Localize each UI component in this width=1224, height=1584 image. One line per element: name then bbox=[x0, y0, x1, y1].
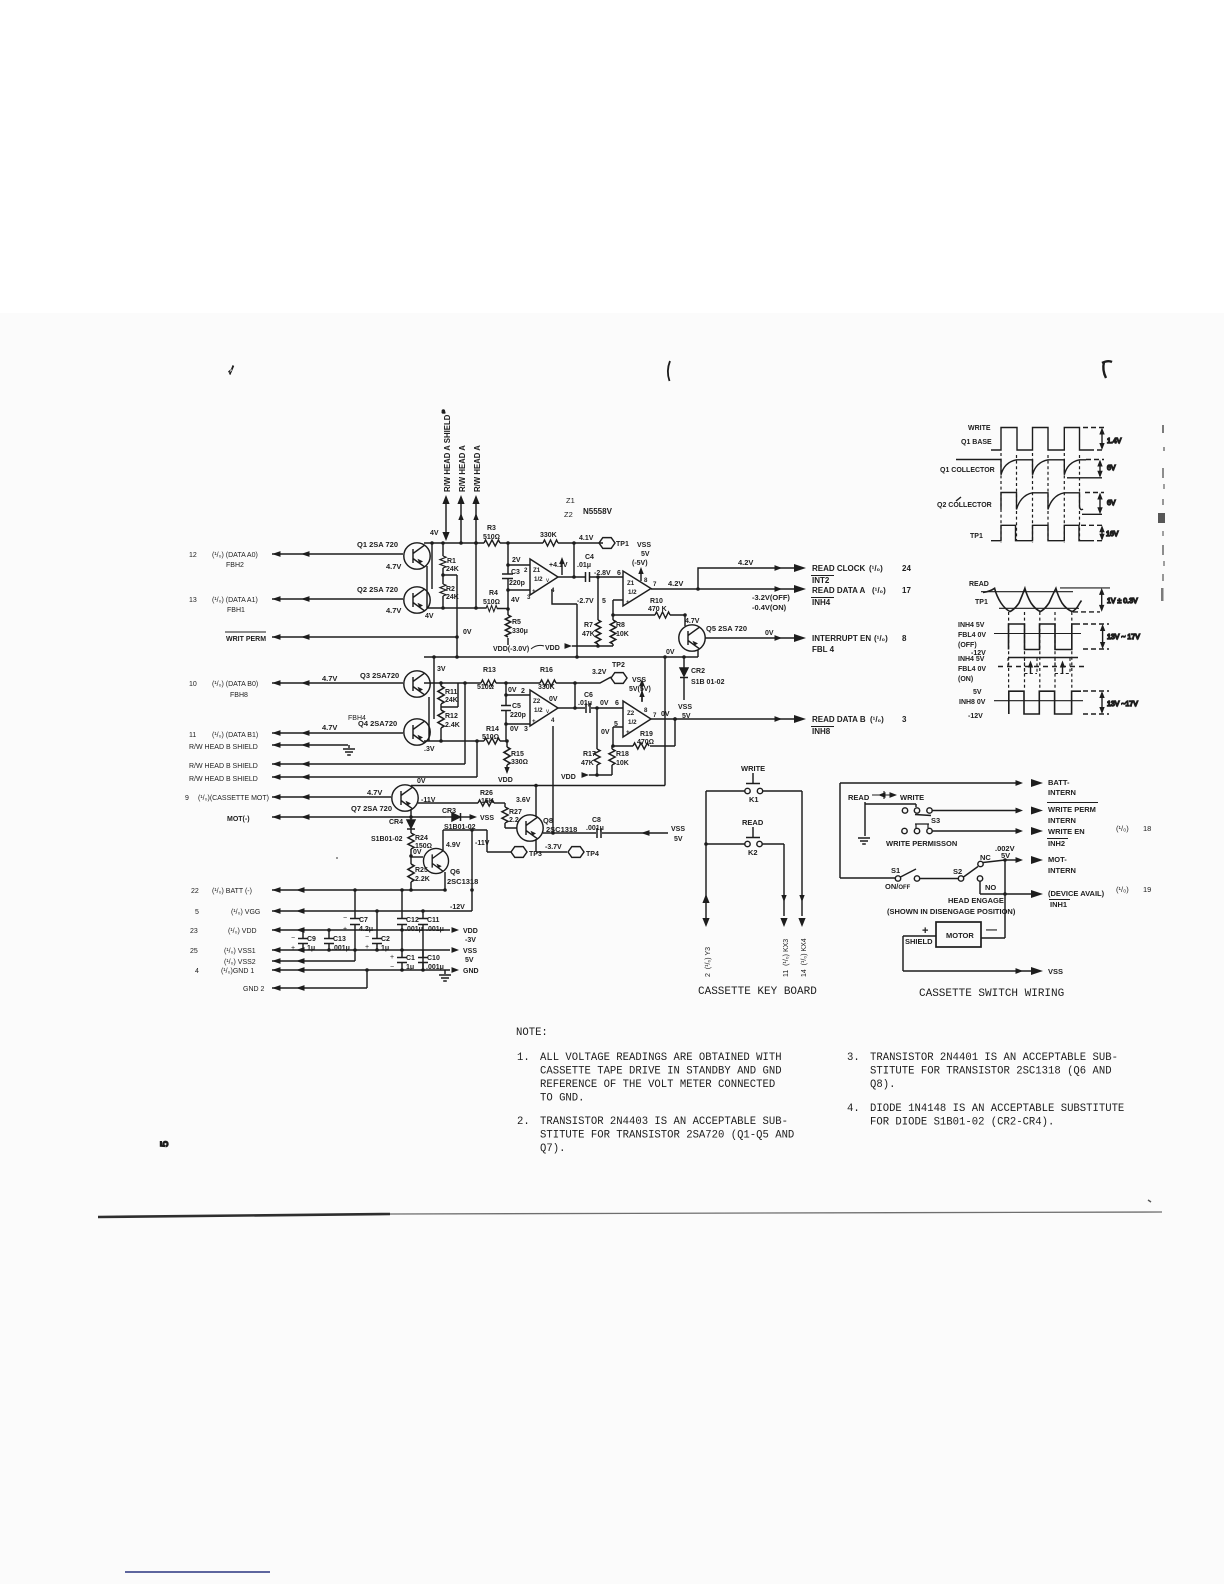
svg-text:VDD: VDD bbox=[498, 777, 513, 784]
resistor R7 bbox=[582, 620, 601, 644]
svg-text:C5: C5 bbox=[512, 703, 521, 710]
svg-text:+: + bbox=[532, 588, 536, 595]
NC contact bbox=[978, 853, 1005, 867]
svg-text:14 (¹/₀) KX4: 14 (¹/₀) KX4 bbox=[801, 938, 808, 977]
resistor R19 bbox=[633, 731, 654, 749]
svg-text:(¹/₀) VSS2: (¹/₀) VSS2 bbox=[224, 959, 256, 966]
svg-text:-12V: -12V bbox=[968, 713, 983, 720]
svg-text:DIODE 1N4148 IS AN ACCEPTABLE: DIODE 1N4148 IS AN ACCEPTABLE SUBSTITUTE bbox=[870, 1103, 1124, 1115]
svg-text:4.: 4. bbox=[847, 1103, 860, 1115]
svg-text:STITUTE FOR TRANSISTOR 2SA720: STITUTE FOR TRANSISTOR 2SA720 (Q1-Q5 AND bbox=[540, 1130, 794, 1142]
svg-text:R13: R13 bbox=[483, 667, 496, 674]
R18 chain bbox=[611, 746, 613, 775]
wire pin12 to Q1 bbox=[272, 551, 403, 557]
keyboard pin arrows bbox=[702, 894, 709, 927]
resistor R5 bbox=[505, 615, 528, 637]
svg-text:10K: 10K bbox=[616, 631, 629, 638]
svg-text:R17: R17 bbox=[583, 751, 596, 758]
INH4 OFF square wave bbox=[1009, 624, 1081, 650]
output wire Z2b READ DATA B bbox=[651, 718, 800, 720]
svg-text:R1: R1 bbox=[447, 558, 456, 565]
wire pin13 to Q2 bbox=[272, 596, 403, 602]
svg-text:Q6: Q6 bbox=[450, 867, 460, 876]
svg-text:330μ: 330μ bbox=[512, 628, 528, 635]
svg-text:R14: R14 bbox=[486, 726, 499, 733]
svg-text:3.: 3. bbox=[847, 1052, 860, 1064]
svg-text:4.7V: 4.7V bbox=[386, 562, 401, 571]
svg-text:(¹/₀) BATT (-): (¹/₀) BATT (-) bbox=[212, 888, 252, 895]
svg-text:0V: 0V bbox=[463, 629, 472, 636]
svg-text:Z1: Z1 bbox=[533, 567, 541, 574]
op-amp Z1b bbox=[623, 571, 657, 606]
INH4 ON 5V line bbox=[1008, 657, 1078, 659]
svg-text:Q4 2SA720: Q4 2SA720 bbox=[358, 719, 397, 728]
keyboard left vertical bbox=[705, 791, 707, 916]
R1 R2 midpoint tap bbox=[443, 575, 457, 657]
svg-text:13: 13 bbox=[189, 597, 197, 604]
svg-text:—: — bbox=[986, 924, 997, 936]
svg-text:R12: R12 bbox=[445, 713, 458, 720]
BATT-INTERN wire bbox=[840, 778, 1076, 797]
svg-text:.3V: .3V bbox=[424, 746, 435, 753]
svg-text:−: − bbox=[390, 964, 394, 971]
svg-text:INH1: INH1 bbox=[1050, 900, 1067, 909]
rail B 3V bbox=[424, 682, 540, 684]
svg-text:VSS: VSS bbox=[678, 704, 692, 711]
diode CR2 bbox=[680, 657, 725, 700]
transistor Q1 bbox=[404, 543, 430, 569]
svg-text:+: + bbox=[291, 945, 295, 952]
transistor Q8 bbox=[517, 815, 543, 841]
capacitor C11 bbox=[418, 911, 444, 970]
svg-text:2.: 2. bbox=[517, 1116, 530, 1128]
svg-text:+4.1V: +4.1V bbox=[549, 562, 568, 569]
svg-text:4.2V: 4.2V bbox=[668, 579, 683, 588]
svg-text:C4: C4 bbox=[585, 554, 594, 561]
op-amp Z2a input wires bbox=[506, 695, 530, 724]
svg-text:WRITE EN: WRITE EN bbox=[1048, 827, 1085, 836]
svg-text:READ DATA B: READ DATA B bbox=[812, 715, 866, 724]
wire read to S3 bbox=[865, 802, 916, 836]
resistor R8 bbox=[610, 620, 629, 644]
svg-text:24K: 24K bbox=[446, 566, 459, 573]
+4.1V arrow at op-amp output bbox=[549, 557, 568, 575]
svg-text:13V ~ 17V: 13V ~ 17V bbox=[1107, 634, 1140, 641]
svg-text:−: − bbox=[343, 915, 347, 922]
svg-text:NO: NO bbox=[985, 883, 996, 892]
svg-text:C3: C3 bbox=[511, 569, 520, 576]
svg-text:R4: R4 bbox=[489, 590, 498, 597]
svg-text:-12V: -12V bbox=[450, 904, 465, 911]
stray scan mark top-right bbox=[1102, 361, 1112, 378]
svg-text:Q8).: Q8). bbox=[870, 1079, 895, 1091]
svg-text:+: + bbox=[626, 599, 630, 606]
svg-text:1/2: 1/2 bbox=[628, 719, 637, 726]
wire R14 row bbox=[424, 740, 507, 742]
svg-text:+: + bbox=[365, 944, 369, 951]
svg-text:S2: S2 bbox=[953, 867, 962, 876]
svg-text:FBL 4: FBL 4 bbox=[812, 645, 835, 654]
4.7V wire to Q5 bbox=[685, 615, 700, 626]
svg-text:16V: 16V bbox=[1106, 531, 1119, 538]
svg-text:Q1 2SA 720: Q1 2SA 720 bbox=[357, 540, 398, 549]
svg-text:R16: R16 bbox=[540, 667, 553, 674]
capacitor C1 bbox=[390, 950, 415, 971]
svg-text:READ: READ bbox=[969, 581, 989, 588]
svg-text:READ CLOCK: READ CLOCK bbox=[812, 564, 866, 573]
S2 switch bbox=[953, 867, 978, 882]
svg-text:510Ω: 510Ω bbox=[483, 599, 500, 606]
svg-text:R/W HEAD B SHIELD: R/W HEAD B SHIELD bbox=[189, 763, 258, 770]
svg-text:K2: K2 bbox=[748, 848, 758, 857]
ground symbol GND row bbox=[439, 970, 451, 981]
capacitor C10 bbox=[418, 950, 444, 971]
svg-text:R/W HEAD B SHIELD: R/W HEAD B SHIELD bbox=[189, 776, 258, 783]
INH4 ON dashed pulse outlines bbox=[1007, 658, 1009, 666]
svg-text:4.2V: 4.2V bbox=[738, 558, 753, 567]
svg-text:STITUTE FOR TRANSISTOR 2SC1318: STITUTE FOR TRANSISTOR 2SC1318 (Q6 AND bbox=[870, 1066, 1112, 1078]
transistor Q6 bbox=[423, 848, 448, 873]
R7 chain bbox=[597, 577, 599, 646]
svg-text:-3.7V: -3.7V bbox=[545, 844, 562, 851]
svg-text:TRANSISTOR 2N4401 IS AN ACCEPT: TRANSISTOR 2N4401 IS AN ACCEPTABLE SUB- bbox=[870, 1052, 1118, 1064]
svg-text:(¹/₀) (DATA A1): (¹/₀) (DATA A1) bbox=[212, 597, 258, 604]
head A wire 2 bbox=[472, 495, 479, 545]
svg-text:19: 19 bbox=[1143, 885, 1151, 894]
svg-text:R3: R3 bbox=[487, 525, 496, 532]
resistor R15 bbox=[498, 741, 528, 784]
svg-text:R27: R27 bbox=[509, 809, 522, 816]
svg-text:17: 17 bbox=[902, 586, 911, 595]
GND2 row bbox=[243, 986, 265, 993]
capacitor C2 bbox=[365, 911, 390, 952]
svg-text:FBH8: FBH8 bbox=[230, 692, 248, 699]
junction dots top rail bbox=[430, 541, 576, 545]
ground on shield row1 bbox=[343, 745, 355, 755]
resistor R12 bbox=[438, 710, 460, 729]
svg-text:TO GND.: TO GND. bbox=[540, 1093, 585, 1105]
svg-text:a: a bbox=[442, 409, 445, 415]
R17 chain bbox=[596, 708, 598, 775]
resistor R10 bbox=[648, 598, 670, 618]
VSS 5V (-5V) supply label with arrow bbox=[632, 542, 651, 581]
op-amp Z2b bbox=[623, 701, 657, 737]
svg-text:47K: 47K bbox=[582, 631, 595, 638]
svg-text:.001μ: .001μ bbox=[426, 964, 444, 971]
svg-text:1/2: 1/2 bbox=[628, 589, 637, 596]
svg-text:13V ~17V: 13V ~17V bbox=[1107, 701, 1138, 708]
svg-text:.01μ: .01μ bbox=[578, 700, 592, 707]
R11 R12 midpoint tap bbox=[441, 683, 458, 707]
svg-text:INTERN: INTERN bbox=[1048, 866, 1076, 875]
svg-text:SHIELD: SHIELD bbox=[905, 937, 933, 946]
resistor R27 bbox=[502, 803, 522, 828]
TP2 test point bbox=[556, 662, 627, 683]
capacitor C13 bbox=[324, 930, 350, 952]
svg-text:+: + bbox=[390, 954, 394, 961]
svg-text:FBH2: FBH2 bbox=[226, 562, 244, 569]
svg-text:(SHOWN IN DISENGAGE POSITION): (SHOWN IN DISENGAGE POSITION) bbox=[887, 907, 1016, 916]
svg-text:Z1: Z1 bbox=[566, 496, 575, 505]
svg-text:VDD: VDD bbox=[463, 928, 478, 935]
svg-text:3V: 3V bbox=[437, 666, 446, 673]
svg-text:WRITE: WRITE bbox=[900, 793, 924, 802]
svg-text:(¹/₀): (¹/₀) bbox=[1116, 885, 1129, 894]
Q5 output wire INTERRUPT EN bbox=[705, 630, 806, 642]
svg-text:C9: C9 bbox=[307, 936, 316, 943]
svg-text:Q2 2SA 720: Q2 2SA 720 bbox=[357, 585, 398, 594]
measure arrow 1.4V bbox=[1099, 428, 1121, 451]
resistor R26 bbox=[478, 790, 505, 806]
TP1 test point bbox=[579, 535, 629, 548]
capacitor C12 bbox=[397, 890, 423, 950]
motor feed vertical bbox=[1004, 860, 1006, 938]
INH4 ON dashed 0V line bbox=[998, 666, 1086, 668]
svg-text:8: 8 bbox=[644, 707, 648, 714]
resistor R17 bbox=[581, 749, 600, 767]
svg-text:MOT(-): MOT(-) bbox=[227, 816, 250, 823]
svg-text:FBH1: FBH1 bbox=[227, 607, 245, 614]
svg-text:4.7V: 4.7V bbox=[367, 788, 382, 797]
svg-text:HEAD ENGAGE: HEAD ENGAGE bbox=[948, 896, 1004, 905]
pin 10 DATA B0 row bbox=[189, 674, 337, 699]
R8 chain bbox=[612, 615, 614, 646]
svg-text:470 K: 470 K bbox=[648, 606, 667, 613]
svg-text:0V: 0V bbox=[510, 726, 519, 733]
MOT(-) row bbox=[227, 814, 446, 823]
svg-text:510Ω: 510Ω bbox=[483, 534, 500, 541]
svg-text:1/2: 1/2 bbox=[534, 576, 543, 583]
svg-text:11: 11 bbox=[189, 732, 196, 739]
svg-text:VSS: VSS bbox=[637, 542, 651, 549]
svg-text:0V: 0V bbox=[413, 849, 422, 856]
svg-text:2.2K: 2.2K bbox=[415, 876, 430, 883]
WRITE EN INH2 output bbox=[933, 824, 1152, 848]
INH4 FBL4 OFF labels bbox=[958, 622, 986, 657]
svg-text:INH4 5V: INH4 5V bbox=[958, 656, 985, 663]
svg-text:GND 2: GND 2 bbox=[243, 986, 265, 993]
svg-text:24K: 24K bbox=[445, 697, 458, 704]
svg-text:-2.7V: -2.7V bbox=[577, 598, 594, 605]
svg-text:(¹/₀) (DATA B0): (¹/₀) (DATA B0) bbox=[212, 681, 258, 688]
svg-text:Q7).: Q7). bbox=[540, 1143, 565, 1155]
transistor Q7 bbox=[392, 785, 418, 811]
dashed timing verticals bbox=[1000, 453, 1002, 543]
svg-text:S1: S1 bbox=[891, 866, 900, 875]
0V rail bbox=[424, 656, 698, 658]
svg-text:Z2: Z2 bbox=[627, 710, 635, 717]
svg-text:CASSETTE TAPE DRIVE IN STANDBY: CASSETTE TAPE DRIVE IN STANDBY AND GND bbox=[540, 1066, 782, 1078]
READ TP1 labels bbox=[969, 581, 989, 606]
svg-text:INH2: INH2 bbox=[1048, 839, 1065, 848]
op-amp Z1a bbox=[524, 559, 558, 601]
svg-text:0V: 0V bbox=[549, 696, 558, 703]
K2 wires bbox=[706, 844, 784, 916]
INH8 square wave bbox=[1009, 691, 1081, 714]
svg-text:VSS: VSS bbox=[671, 826, 685, 833]
motor right wire bbox=[981, 937, 1005, 939]
NO contact bbox=[977, 876, 1043, 898]
WRITE PERM INTERN output bbox=[933, 803, 1099, 826]
svg-text:BATT-: BATT- bbox=[1048, 778, 1070, 787]
MOTOR box bbox=[922, 922, 997, 947]
svg-text:(¹/₀) (DATA A0): (¹/₀) (DATA A0) bbox=[212, 552, 258, 559]
pin 22 BATT row bbox=[191, 888, 252, 895]
svg-text:4.1V: 4.1V bbox=[579, 535, 594, 542]
svg-text:18: 18 bbox=[1143, 824, 1151, 833]
svg-text:5: 5 bbox=[602, 598, 606, 605]
svg-text:+: + bbox=[343, 926, 347, 933]
Q7 collector chain down bbox=[410, 809, 412, 820]
resistor R4 bbox=[483, 590, 500, 612]
blue pen line bottom-left bbox=[125, 1571, 270, 1573]
pin 4 GND1 row bbox=[195, 968, 254, 975]
pin 9 CASSETTE MOT row bbox=[185, 788, 382, 802]
svg-text:15K: 15K bbox=[481, 798, 494, 805]
R/W HEAD B SHIELD row 1 bbox=[189, 742, 348, 751]
wire pin9 to Q7 bbox=[272, 794, 391, 800]
diode CR4 bbox=[371, 819, 415, 843]
svg-text:R/W HEAD B SHIELD: R/W HEAD B SHIELD bbox=[189, 744, 258, 751]
svg-text:WRITE PERM: WRITE PERM bbox=[1048, 805, 1096, 814]
waveform Q1 BASE square wave bbox=[991, 428, 1089, 451]
svg-text:(¹/₀): (¹/₀) bbox=[1116, 824, 1129, 833]
svg-text:.001μ: .001μ bbox=[426, 926, 444, 933]
svg-text:(OFF): (OFF) bbox=[958, 642, 977, 649]
svg-text:3.6V: 3.6V bbox=[516, 797, 531, 804]
svg-text:47K: 47K bbox=[581, 760, 594, 767]
svg-text:2: 2 bbox=[521, 688, 525, 695]
waveform TP1 square wave bbox=[991, 525, 1089, 540]
svg-text:Z1: Z1 bbox=[627, 580, 635, 587]
svg-text:R24: R24 bbox=[415, 835, 428, 842]
svg-text:0V: 0V bbox=[601, 729, 610, 736]
Q3 Q4 coupling verticals bbox=[429, 683, 434, 741]
pin 13 DATA A1 row bbox=[189, 597, 258, 614]
R/W HEAD B SHIELD row 3 bbox=[189, 741, 477, 783]
svg-text:VDD(-3.0V): VDD(-3.0V) bbox=[493, 646, 529, 653]
svg-text:(¹/₀)GND 1: (¹/₀)GND 1 bbox=[221, 968, 254, 975]
resistor R25 bbox=[408, 856, 430, 891]
voltage labels output bbox=[668, 558, 790, 612]
svg-text:VDD: VDD bbox=[561, 774, 576, 781]
svg-text:WRITE: WRITE bbox=[968, 425, 991, 432]
svg-text:(¹/₀): (¹/₀) bbox=[874, 634, 888, 643]
svg-text:3: 3 bbox=[902, 715, 907, 724]
svg-text:2: 2 bbox=[524, 567, 528, 574]
INH8 0V line bbox=[994, 700, 1083, 702]
output wire op-amp Z1b READ DATA A bbox=[651, 588, 800, 590]
ground under read bbox=[858, 838, 870, 844]
Q6 emitter down bbox=[444, 872, 446, 891]
svg-text:R19: R19 bbox=[640, 731, 653, 738]
svg-text:READ: READ bbox=[742, 818, 764, 827]
feedback vertical 330K bbox=[573, 543, 575, 577]
wire pin10 to Q3 bbox=[272, 680, 403, 686]
svg-text:WRITE PERMISSON: WRITE PERMISSON bbox=[886, 839, 957, 848]
waveform Q1 COLLECTOR trace bbox=[956, 460, 1086, 475]
svg-text:(¹/₀): (¹/₀) bbox=[872, 586, 886, 595]
svg-text:Q1 COLLECTOR: Q1 COLLECTOR bbox=[940, 467, 995, 474]
svg-text:R/W HEAD A: R/W HEAD A bbox=[458, 445, 467, 492]
svg-text:.001μ: .001μ bbox=[405, 926, 423, 933]
svg-text:Z2: Z2 bbox=[533, 698, 541, 705]
svg-text:Q8: Q8 bbox=[543, 816, 553, 825]
svg-text:Q2 COLLECTOR: Q2 COLLECTOR bbox=[937, 502, 992, 509]
READ key K2 bbox=[742, 818, 764, 838]
svg-text:5V: 5V bbox=[973, 689, 982, 696]
svg-text:4: 4 bbox=[195, 968, 199, 975]
svg-text:INTERN: INTERN bbox=[1048, 788, 1076, 797]
head A shield wire with arrows bbox=[430, 495, 450, 541]
svg-text:0V: 0V bbox=[508, 687, 517, 694]
HEAD ENGAGE caption bbox=[887, 896, 1016, 916]
svg-text:(¹/₀) VSS1: (¹/₀) VSS1 bbox=[224, 948, 256, 955]
svg-text:K1: K1 bbox=[749, 795, 759, 804]
keyboard top wires bbox=[706, 790, 802, 792]
svg-text:CR3: CR3 bbox=[442, 808, 456, 815]
keyboard right vertical bbox=[801, 791, 803, 916]
C8 output wire bbox=[543, 832, 668, 834]
svg-text:2.4K: 2.4K bbox=[445, 722, 460, 729]
svg-text:4.2μ: 4.2μ bbox=[359, 926, 373, 933]
INH4 OFF 0V line bbox=[994, 633, 1081, 635]
svg-text:3.2V: 3.2V bbox=[592, 669, 607, 676]
svg-text:10: 10 bbox=[189, 681, 197, 688]
svg-text:(¹/₀) (DATA B1): (¹/₀) (DATA B1) bbox=[212, 732, 258, 739]
svg-text:Q7 2SA 720: Q7 2SA 720 bbox=[351, 804, 392, 813]
resistor R18 bbox=[609, 749, 629, 767]
capacitor C7 bbox=[343, 890, 373, 950]
feedback vertical R16 bbox=[574, 683, 576, 708]
transistor Q3 bbox=[404, 671, 430, 697]
svg-text:MOTOR: MOTOR bbox=[946, 931, 974, 940]
svg-text:VSS: VSS bbox=[632, 677, 646, 684]
svg-text:6V: 6V bbox=[1107, 465, 1116, 472]
svg-text:9: 9 bbox=[185, 795, 189, 802]
svg-text:VSS: VSS bbox=[480, 815, 494, 822]
branch to READ CLOCK bbox=[698, 568, 800, 589]
stray scan mark top-middle parenthesis bbox=[668, 361, 670, 381]
DEVICE AVAIL INH1 labels bbox=[1048, 885, 1151, 909]
svg-text:C11: C11 bbox=[427, 917, 440, 924]
measure arrow 13V-17V lower bbox=[1099, 691, 1138, 714]
INTERRUPT EN FBL4 labels bbox=[812, 634, 907, 654]
capacitor C3 bbox=[502, 557, 525, 604]
svg-text:REFERENCE OF THE VOLT METER CO: REFERENCE OF THE VOLT METER CONNECTED bbox=[540, 1079, 775, 1091]
resistor R14 bbox=[482, 726, 500, 744]
INH4 FBL4 ON labels bbox=[958, 656, 986, 683]
svg-text:4.7V: 4.7V bbox=[322, 723, 337, 732]
op-amp input wires Z1a bbox=[508, 565, 530, 590]
svg-text:4V: 4V bbox=[430, 530, 439, 537]
svg-text:WRIT PERM: WRIT PERM bbox=[226, 636, 266, 643]
capacitor C5 bbox=[501, 703, 526, 719]
svg-text:5V: 5V bbox=[674, 836, 683, 843]
TP3 test point bbox=[487, 830, 542, 858]
svg-text:R26: R26 bbox=[480, 790, 493, 797]
svg-text:INTERN: INTERN bbox=[1048, 816, 1076, 825]
svg-text:7: 7 bbox=[653, 712, 657, 719]
svg-text:S1B 01-02: S1B 01-02 bbox=[691, 679, 725, 686]
svg-text:TP1: TP1 bbox=[616, 541, 629, 548]
svg-text:INH8 0V: INH8 0V bbox=[959, 699, 986, 706]
svg-text:470Ω: 470Ω bbox=[637, 739, 654, 746]
output wire op-amp1 with C4 bbox=[558, 576, 623, 578]
svg-text:INT2: INT2 bbox=[812, 576, 830, 585]
READ CLOCK INT2 labels bbox=[811, 564, 911, 585]
svg-text:22: 22 bbox=[191, 888, 199, 895]
